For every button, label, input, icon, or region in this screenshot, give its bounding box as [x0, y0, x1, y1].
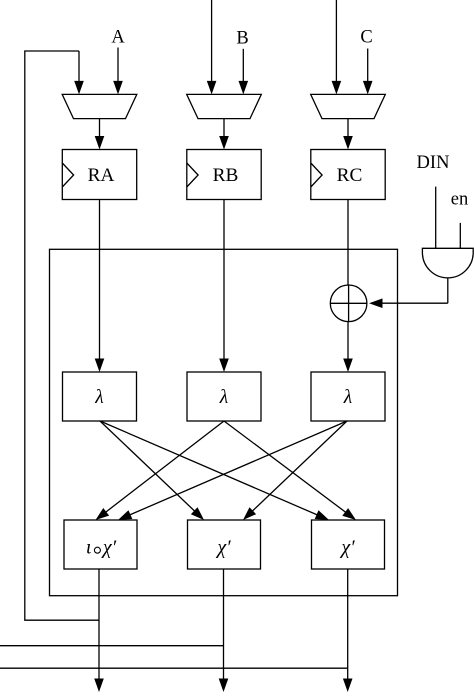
wire mux MA to register RA	[99, 119, 101, 138]
wire DIN into and-gate G1	[435, 187, 437, 249]
svg-text:ι: ι	[86, 537, 92, 559]
svg-text:λ: λ	[94, 387, 103, 408]
svg-text:RB: RB	[213, 165, 239, 186]
svg-text:RA: RA	[88, 165, 115, 186]
wire lambda3 to chi1	[129, 421, 347, 515]
wire chi3 feedback to left edge	[0, 667, 348, 669]
xor X1	[330, 285, 367, 322]
wire xor X1 to lambda3	[347, 322, 349, 361]
wire chi2 feedback to left edge	[0, 645, 224, 647]
wire register RB to lambda2	[223, 200, 225, 361]
wire input A into mux MA	[117, 48, 119, 83]
svg-text:B: B	[236, 28, 248, 48]
svg-text:en: en	[451, 190, 468, 210]
wire lambda2 to chi1	[105, 421, 224, 513]
mux MC	[311, 94, 386, 118]
register RA	[62, 150, 136, 200]
chi unit X2	[188, 520, 261, 569]
svg-text:A: A	[111, 27, 125, 47]
svg-text:λ: λ	[343, 387, 352, 408]
register RC	[311, 150, 385, 200]
mux MA	[62, 94, 137, 118]
svg-text:λ: λ	[219, 387, 228, 408]
and-gate G1	[422, 248, 473, 278]
svg-text:χ′: χ′	[101, 537, 117, 559]
svg-text:RC: RC	[337, 165, 363, 186]
wire lambda2 to chi3	[224, 421, 347, 513]
wire feedback B (from top edge into mux MB)	[211, 0, 213, 83]
wire input B into mux MB	[242, 49, 244, 83]
wire feedback C (from top edge into mux MC)	[335, 0, 337, 83]
lambda unit L1	[63, 372, 137, 421]
wire feedback A (from chi1 output up left side into mux MA)	[25, 51, 99, 620]
lambda unit L2	[187, 372, 261, 421]
svg-text:χ′: χ′	[339, 537, 355, 559]
wire register RC to xor X1	[347, 200, 349, 286]
mux MB	[187, 94, 262, 118]
wire mux MC to register RC	[347, 119, 349, 138]
round-function block outline	[50, 249, 398, 595]
wire lambda1 to chi2	[100, 421, 196, 512]
wire en into and-gate G1	[459, 223, 461, 248]
svg-text:DIN: DIN	[417, 153, 450, 173]
wire input C into mux MC	[367, 49, 369, 83]
svg-text:C: C	[360, 27, 372, 47]
wire and-gate G1 output to xor X1	[447, 278, 449, 303]
wire register RA to lambda1	[99, 200, 101, 361]
register RB	[187, 150, 261, 200]
wire lambda3 to chi2	[251, 421, 347, 512]
wire chi2 output to bottom	[223, 569, 225, 681]
wire chi3 output to bottom	[347, 569, 349, 681]
wire mux MB to register RB	[223, 119, 225, 138]
wire chi1 output to bottom	[98, 569, 100, 681]
wire lambda1 to chi3	[100, 421, 318, 515]
chi unit X3	[312, 520, 385, 569]
lambda unit L3	[311, 372, 385, 421]
svg-text:χ′: χ′	[215, 537, 231, 559]
chi unit X1 (iota-chi)	[64, 520, 137, 569]
